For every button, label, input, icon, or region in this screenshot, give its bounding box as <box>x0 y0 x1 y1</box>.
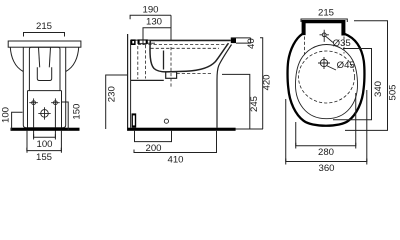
dim 40 extension lines (side view) <box>231 38 251 43</box>
shared extension line (side view) <box>170 15 172 40</box>
fixing hole left (front view) <box>29 98 38 107</box>
inner body line right (front view) <box>61 91 63 128</box>
drain hole (front view) <box>38 107 50 119</box>
extension 130 down (side view) <box>142 28 144 45</box>
inner body line left (front view) <box>27 91 29 128</box>
fixture top line (side view) <box>131 39 231 41</box>
svg-text:360: 360 <box>318 163 334 174</box>
svg-text:155: 155 <box>36 152 52 163</box>
inner rim oval (top view) <box>296 45 358 119</box>
hidden fixing line left (top view) <box>304 37 306 55</box>
back line (side view) <box>130 40 132 128</box>
dim 420 bracket (side view) <box>260 38 263 129</box>
base interior line (side view) <box>131 79 164 81</box>
svg-text:130: 130 <box>146 17 162 28</box>
fixing hole right (front view) <box>51 98 60 107</box>
floor bar (side view) <box>128 128 236 131</box>
svg-text:215: 215 <box>36 21 52 32</box>
svg-text:340: 340 <box>373 81 384 97</box>
svg-text:Ø35: Ø35 <box>333 38 351 49</box>
svg-text:215: 215 <box>318 7 334 18</box>
inner recess panel (front view) <box>29 47 60 90</box>
hole 45 leader (top view) <box>327 66 336 70</box>
dim 410 extension right (side view) <box>216 131 218 153</box>
svg-text:190: 190 <box>142 4 158 15</box>
rear band (top view) <box>302 20 346 36</box>
funnel left line (front view) <box>39 47 40 67</box>
funnel right line (front view) <box>49 47 50 67</box>
dim 280 extensions (top view) <box>296 93 356 149</box>
body outline (front view) <box>23 47 65 128</box>
seat edge line (side view) <box>150 40 231 42</box>
dim 410 bracket (side view) <box>134 150 217 153</box>
dim 100 left bracket (front view) <box>12 112 23 131</box>
wall line (side view) <box>127 34 129 131</box>
outlet box (side view) <box>166 72 177 78</box>
bowl taper right (front view) <box>66 47 79 71</box>
svg-text:505: 505 <box>388 84 399 100</box>
dim 130 bracket (side view) <box>143 28 171 32</box>
dim 150 right bracket (front view) <box>62 102 68 131</box>
dim 505 bracket (top view) <box>345 21 388 131</box>
dim 100 bottom bracket (front view) <box>34 134 56 137</box>
side fixing hole (side view) <box>164 119 168 123</box>
svg-text:280: 280 <box>318 147 334 158</box>
hidden centerline inlet (side view) <box>145 45 147 79</box>
dim 230 bracket (side view) <box>106 75 128 129</box>
hole 45 crosshair (top view) <box>318 57 330 69</box>
inner bowl curve (side view) <box>150 40 229 72</box>
hidden line lower channel (side view) <box>151 47 220 49</box>
dim 280 bracket (top view) <box>296 143 356 146</box>
floor thin extension (side view) <box>236 128 264 130</box>
svg-text:150: 150 <box>72 104 83 120</box>
dim 155 bracket (front view) <box>27 148 62 151</box>
floor fixing block (side view) <box>132 113 137 127</box>
dim 190 bracket (side view) <box>130 15 171 19</box>
hidden line rim channel (side view) <box>138 44 228 46</box>
hidden centerline drain (side view) <box>170 47 172 87</box>
floor bar (front view) <box>11 128 80 131</box>
dim 360 bracket (top view) <box>286 159 367 162</box>
svg-text:Ø45: Ø45 <box>337 60 355 71</box>
extension lines fixing holes down (front view) <box>34 107 56 140</box>
outlet box (front view) <box>37 67 51 80</box>
bowl taper left (front view) <box>10 47 23 71</box>
shelf line (front view) <box>28 90 62 92</box>
dim 215 bracket (front view) <box>24 33 65 37</box>
svg-text:420: 420 <box>262 74 273 90</box>
rim front section black square (side view) <box>231 38 236 43</box>
rim band (front view) <box>8 41 81 47</box>
svg-text:245: 245 <box>249 96 260 112</box>
svg-text:100: 100 <box>0 107 11 123</box>
dim 245 bracket (side view) <box>222 74 250 129</box>
svg-text:100: 100 <box>36 139 52 150</box>
hidden trap line (side view) <box>177 72 211 74</box>
outer rim outline (top view) <box>288 34 365 126</box>
svg-text:230: 230 <box>107 86 118 102</box>
dim 360 extensions (top view) <box>286 90 367 165</box>
svg-text:410: 410 <box>167 155 183 166</box>
dim 340 bracket (top view) <box>333 49 372 120</box>
hidden bowl oval (top view) <box>299 51 355 103</box>
inlet pipe (side view) <box>138 40 148 44</box>
pipe to duct link (side view) <box>147 42 155 44</box>
hidden fixing line right (top view) <box>343 37 345 54</box>
hole 35 leader (top view) <box>326 36 333 42</box>
duct inner wall (side view) <box>163 51 165 70</box>
hole 35 crosshair (top view) <box>320 30 329 42</box>
dim 215 bracket (top view) <box>301 19 347 22</box>
dim 200 bracket (side view) <box>135 139 172 142</box>
dim 200 extensions (side view) <box>135 131 172 142</box>
svg-text:40: 40 <box>246 38 257 49</box>
front outer profile (side view) <box>217 45 232 128</box>
extension lines 155 (front view) <box>27 131 61 153</box>
wall fixing block top (side view) <box>131 39 136 45</box>
hidden back channel line (side view) <box>137 46 139 79</box>
